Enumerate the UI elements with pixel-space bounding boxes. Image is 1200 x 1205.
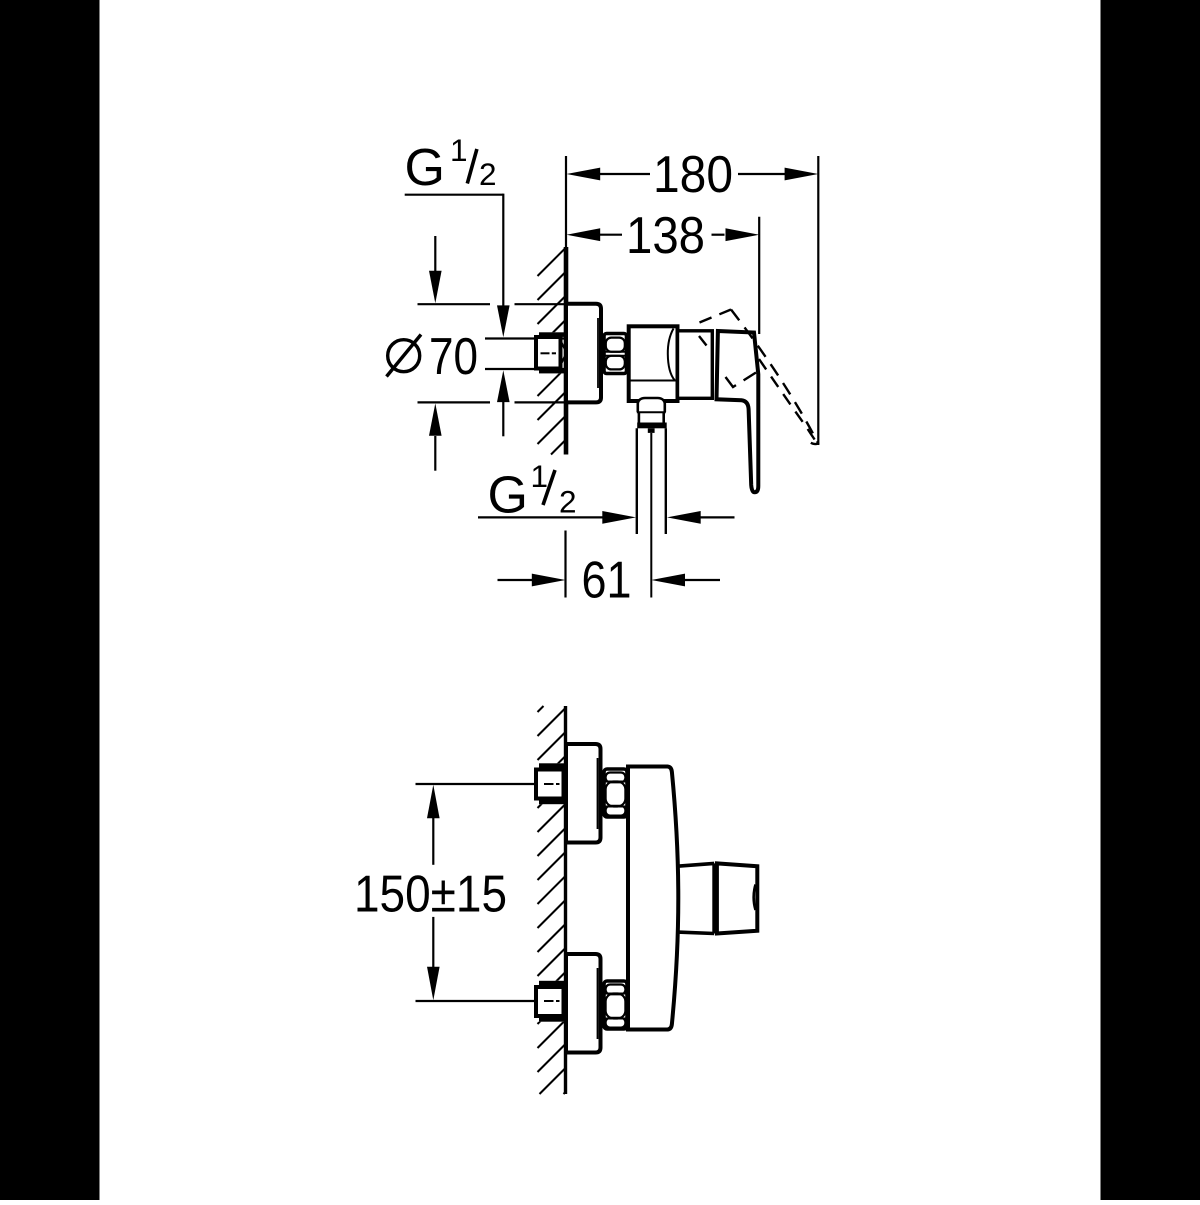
- lower supply flange bars: [539, 981, 566, 1022]
- wall face line (top view) upper thin part: [565, 156, 567, 248]
- dimension 150±15 arrows: [427, 785, 440, 1000]
- upper hex nut (bottom view): [604, 769, 627, 817]
- dimension 61 line left: [498, 579, 534, 581]
- dimension 180 line: [599, 173, 786, 175]
- body cylinder highlight arc: [668, 329, 675, 381]
- G 1/2 leader line (top): [405, 194, 504, 306]
- knob end face arc: [754, 885, 756, 911]
- upper supply flange bars: [539, 763, 566, 804]
- supply nut chamfer lines (top view): [562, 343, 566, 364]
- svg-text:G: G: [488, 467, 528, 525]
- handle cap and lever (solid, closed position): [717, 331, 759, 492]
- svg-text:150±15: 150±15: [354, 866, 507, 924]
- dimension Ø70 upper arrow: [429, 236, 442, 303]
- shower outlet dome: [638, 398, 665, 412]
- dimension 138 line: [599, 234, 725, 236]
- outlet step line: [637, 411, 666, 413]
- lower supply square nut: [536, 987, 564, 1016]
- dimension 138 extension line (right): [758, 217, 760, 334]
- dimension extension line: Ø70 bottom: [418, 401, 566, 403]
- lower escutcheon inner edge: [597, 968, 599, 1039]
- G 1/2 hose dimension arrows: [602, 511, 700, 524]
- mixer body (bottom view): [628, 767, 678, 1030]
- dimension extension line: Ø70 top: [418, 303, 566, 305]
- dimension 61 extension line (left, wall): [564, 531, 566, 598]
- svg-text:1: 1: [450, 132, 468, 168]
- dimension 150 extension line upper: [416, 783, 537, 785]
- svg-text:2: 2: [559, 484, 577, 520]
- lower escutcheon (bottom view): [566, 954, 601, 1053]
- svg-text:180: 180: [653, 146, 733, 204]
- supply square union nut: [536, 337, 561, 369]
- escutcheon flange (top view): [566, 304, 601, 403]
- dimension Ø70 lower arrow: [429, 403, 442, 470]
- svg-text:138: 138: [626, 207, 705, 265]
- svg-text:61: 61: [582, 552, 632, 610]
- dimension text Ø70: [387, 335, 422, 377]
- dimension 61 line right: [685, 579, 720, 581]
- upper supply nut chamfer lines: [564, 774, 567, 794]
- G 1/2 hose dimension line left: [478, 516, 603, 518]
- wall hatching (top view): [538, 248, 566, 455]
- trim ring (top view): [678, 331, 713, 399]
- dimension 138 arrows: [567, 228, 760, 241]
- valve body housing (top view): [629, 326, 678, 401]
- dimension 180 arrows: [567, 168, 819, 181]
- G 1/2 hose dimension line right: [700, 516, 735, 518]
- hose nipple inner nub: [648, 428, 655, 433]
- white cutout lower supply fitting: [534, 981, 567, 1022]
- lower supply nut chamfer lines: [564, 992, 567, 1012]
- wall face line (bottom view): [564, 706, 567, 1094]
- G 1/2 down arrow to pipe: [497, 305, 510, 337]
- cartridge dome (bottom view): [678, 863, 715, 933]
- right black pillar bar: [1101, 0, 1200, 1200]
- body parting line: [630, 380, 677, 382]
- supply socket flange bars: [539, 332, 566, 373]
- svg-text:2: 2: [479, 156, 497, 192]
- lever raised position (dashed) lower edge: [759, 359, 817, 443]
- G 1/2 label slash (bottom): [543, 470, 555, 505]
- dimension 150 extension line lower: [416, 1000, 537, 1002]
- union hex nut (top view): [604, 334, 627, 374]
- upper supply square nut: [536, 770, 564, 799]
- upper escutcheon inner edge: [597, 758, 599, 829]
- lever raised position (dashed) notch near cap: [726, 373, 757, 388]
- left black pillar bar: [0, 0, 100, 1200]
- lever raised position (dashed) top edge: [731, 310, 819, 445]
- dimension 180 extension line (right): [817, 156, 819, 445]
- lower supply centerline (dash-dot): [544, 1000, 560, 1002]
- wall face line (top view) thick section part: [564, 247, 569, 455]
- upper supply centerline (dash-dot): [544, 783, 560, 785]
- escutcheon inner edge line: [597, 318, 599, 388]
- hose union nut (black band): [637, 423, 667, 429]
- handle knob (bottom view): [717, 863, 757, 933]
- dimension 150±15 line upper segment: [432, 818, 434, 968]
- supply pipe through wall: [485, 339, 564, 370]
- hose nipple centerline / 61 extension line: [650, 433, 652, 598]
- hose nipple walls: [637, 428, 666, 534]
- G 1/2 up arrow below pipe: [497, 370, 510, 436]
- supply nut centerline (dash-dot): [541, 352, 557, 354]
- lever raised position (dashed) short edge near ring: [699, 336, 707, 346]
- svg-text:G: G: [405, 139, 445, 197]
- upper escutcheon (bottom view): [566, 744, 601, 843]
- G 1/2 label (top): [405, 132, 497, 197]
- lever raised position (dashed) upper-left edge: [700, 310, 732, 323]
- svg-text:70: 70: [429, 328, 478, 386]
- outlet collar sides: [639, 412, 664, 422]
- lower hex nut (bottom view): [604, 981, 627, 1029]
- wall hatching (bottom view): [538, 706, 566, 1094]
- white cutout upper supply fitting: [534, 763, 567, 804]
- G 1/2 label (bottom, hose thread): [488, 458, 577, 525]
- G 1/2 label slash (top): [467, 149, 477, 184]
- dimension 61 arrows: [532, 574, 685, 587]
- white cutout for supply fitting in wall: [534, 332, 567, 373]
- svg-text:1: 1: [531, 458, 549, 494]
- lever raised position (dashed) tip: [807, 440, 818, 444]
